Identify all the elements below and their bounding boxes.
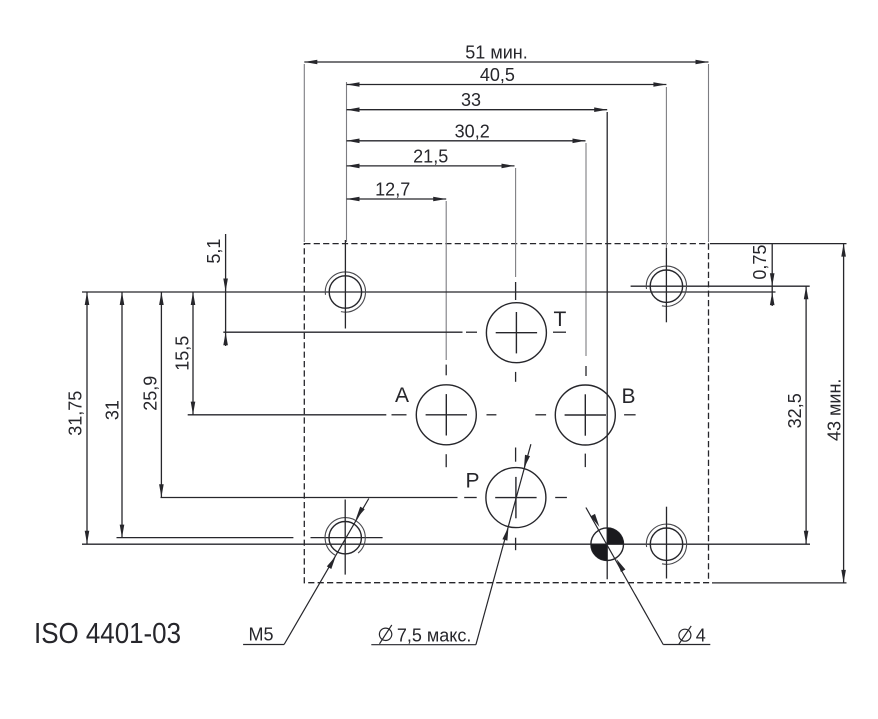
- extension lines (thin gray): [304, 64, 708, 360]
- wire 31 row y=537.6 left part: [117, 537, 294, 539]
- wire A-B row y=414.8: [188, 414, 387, 416]
- wire A column dash above A: [445, 365, 447, 376]
- svg-text:5,1: 5,1: [204, 239, 224, 264]
- port B circle: [555, 385, 615, 445]
- dim 40,5: [347, 84, 667, 86]
- label diameter 4: [679, 626, 692, 645]
- wire ext A column x=446.2: [445, 201, 447, 360]
- centerline dashes (dark): [392, 282, 636, 550]
- node datum column line x=607.2: [606, 112, 608, 579]
- leader d7.5: [371, 444, 531, 645]
- mounting hole top-right: [646, 248, 686, 322]
- wire top-left hole row y=292: [82, 291, 776, 293]
- leader M5: [243, 499, 369, 645]
- dim 0,75: [771, 244, 773, 306]
- dim 30,2: [347, 140, 586, 142]
- wire plate top edge extension: [710, 243, 847, 245]
- dim 31: [121, 292, 123, 538]
- plate outline (dashed): [304, 244, 708, 583]
- svg-text:30,2: 30,2: [455, 121, 490, 141]
- arrowheads: [85, 60, 846, 583]
- svg-text:T: T: [554, 308, 567, 331]
- wire P row dash right of P: [555, 497, 567, 499]
- wire B column dash above B: [585, 366, 587, 376]
- dim 5,1: [225, 234, 227, 346]
- wire A column dash below A: [445, 454, 447, 467]
- svg-text:15,5: 15,5: [173, 336, 193, 371]
- wire A row dash left of A: [392, 414, 407, 416]
- svg-text:B: B: [622, 385, 636, 408]
- svg-text:31,75: 31,75: [65, 391, 85, 436]
- wire bottom row y=544.2: [82, 543, 810, 545]
- wire T column dash below T: [515, 372, 517, 382]
- svg-text:32,5: 32,5: [785, 393, 805, 428]
- svg-text:P: P: [466, 470, 480, 493]
- svg-text:51 мин.: 51 мин.: [465, 43, 527, 63]
- wire plate bottom edge extension: [712, 582, 847, 584]
- svg-text:21,5: 21,5: [413, 146, 448, 166]
- dim 32,5: [805, 286, 807, 544]
- leader d4: [586, 508, 710, 645]
- wire T column dash above T: [515, 282, 517, 300]
- wire B column dash below B: [584, 454, 586, 468]
- dim 12,7: [347, 198, 447, 200]
- wire ext T/P column x=515.6: [515, 168, 517, 277]
- svg-text:7,5 макс.: 7,5 макс.: [397, 626, 472, 646]
- mounting hole top-left (M5): [325, 240, 365, 329]
- svg-text:31: 31: [103, 400, 123, 420]
- mounting hole bottom-left: [325, 500, 365, 575]
- svg-text:33: 33: [461, 90, 481, 110]
- wire P column dash below P: [515, 538, 517, 551]
- wire P row y=497.5: [161, 497, 458, 499]
- label diameter 7,5 макс.: [379, 625, 391, 644]
- svg-text:40,5: 40,5: [480, 65, 515, 85]
- wire P column dash above P: [515, 448, 517, 462]
- wire B row dash left of B: [535, 414, 546, 416]
- wire T row y=332: [223, 331, 462, 333]
- svg-text:4: 4: [696, 626, 706, 646]
- wire ext 51-right x=708.5: [708, 64, 710, 242]
- wire ext B column x=586: [585, 143, 587, 356]
- svg-text:12,7: 12,7: [375, 180, 410, 200]
- dim 51 мин.: [304, 61, 708, 63]
- wire ext 51-left x=304.3: [303, 64, 305, 242]
- svg-text:A: A: [395, 384, 409, 407]
- mounting hole bottom-right: [646, 507, 686, 579]
- svg-text:43 мин.: 43 мин.: [824, 379, 844, 441]
- wire top-right hole row y=286.2: [631, 285, 810, 287]
- port T circle: [486, 303, 546, 363]
- dimension lines: [87, 62, 844, 583]
- dim 31,75: [86, 292, 88, 544]
- row lines (solid dark): [82, 244, 847, 583]
- wire T row dash left of T: [466, 331, 477, 333]
- dim 25,9: [160, 292, 162, 497]
- dim 15,5: [192, 292, 194, 415]
- dim 21,5: [347, 165, 515, 167]
- wire B row dash right of B: [624, 414, 636, 416]
- port P circle: [486, 468, 546, 528]
- dim 43 мин.: [843, 244, 845, 583]
- svg-text:0,75: 0,75: [750, 245, 770, 280]
- svg-text:25,9: 25,9: [141, 376, 161, 411]
- wire A row dash right of A: [487, 414, 497, 416]
- datum target symbol: [591, 528, 624, 561]
- dim 33: [347, 109, 608, 111]
- wire P row dash left of P: [464, 497, 477, 499]
- port A circle: [416, 385, 476, 445]
- wire 31 row y=537.6 through hole: [311, 537, 383, 539]
- wire T row dash right of T: [553, 331, 566, 333]
- wire ext left-holes column x=346.5: [346, 82, 348, 242]
- svg-text:M5: M5: [249, 625, 274, 645]
- wire ext right-holes column x=666.4: [665, 87, 667, 248]
- svg-text:ISO 4401-03: ISO 4401-03: [34, 618, 181, 650]
